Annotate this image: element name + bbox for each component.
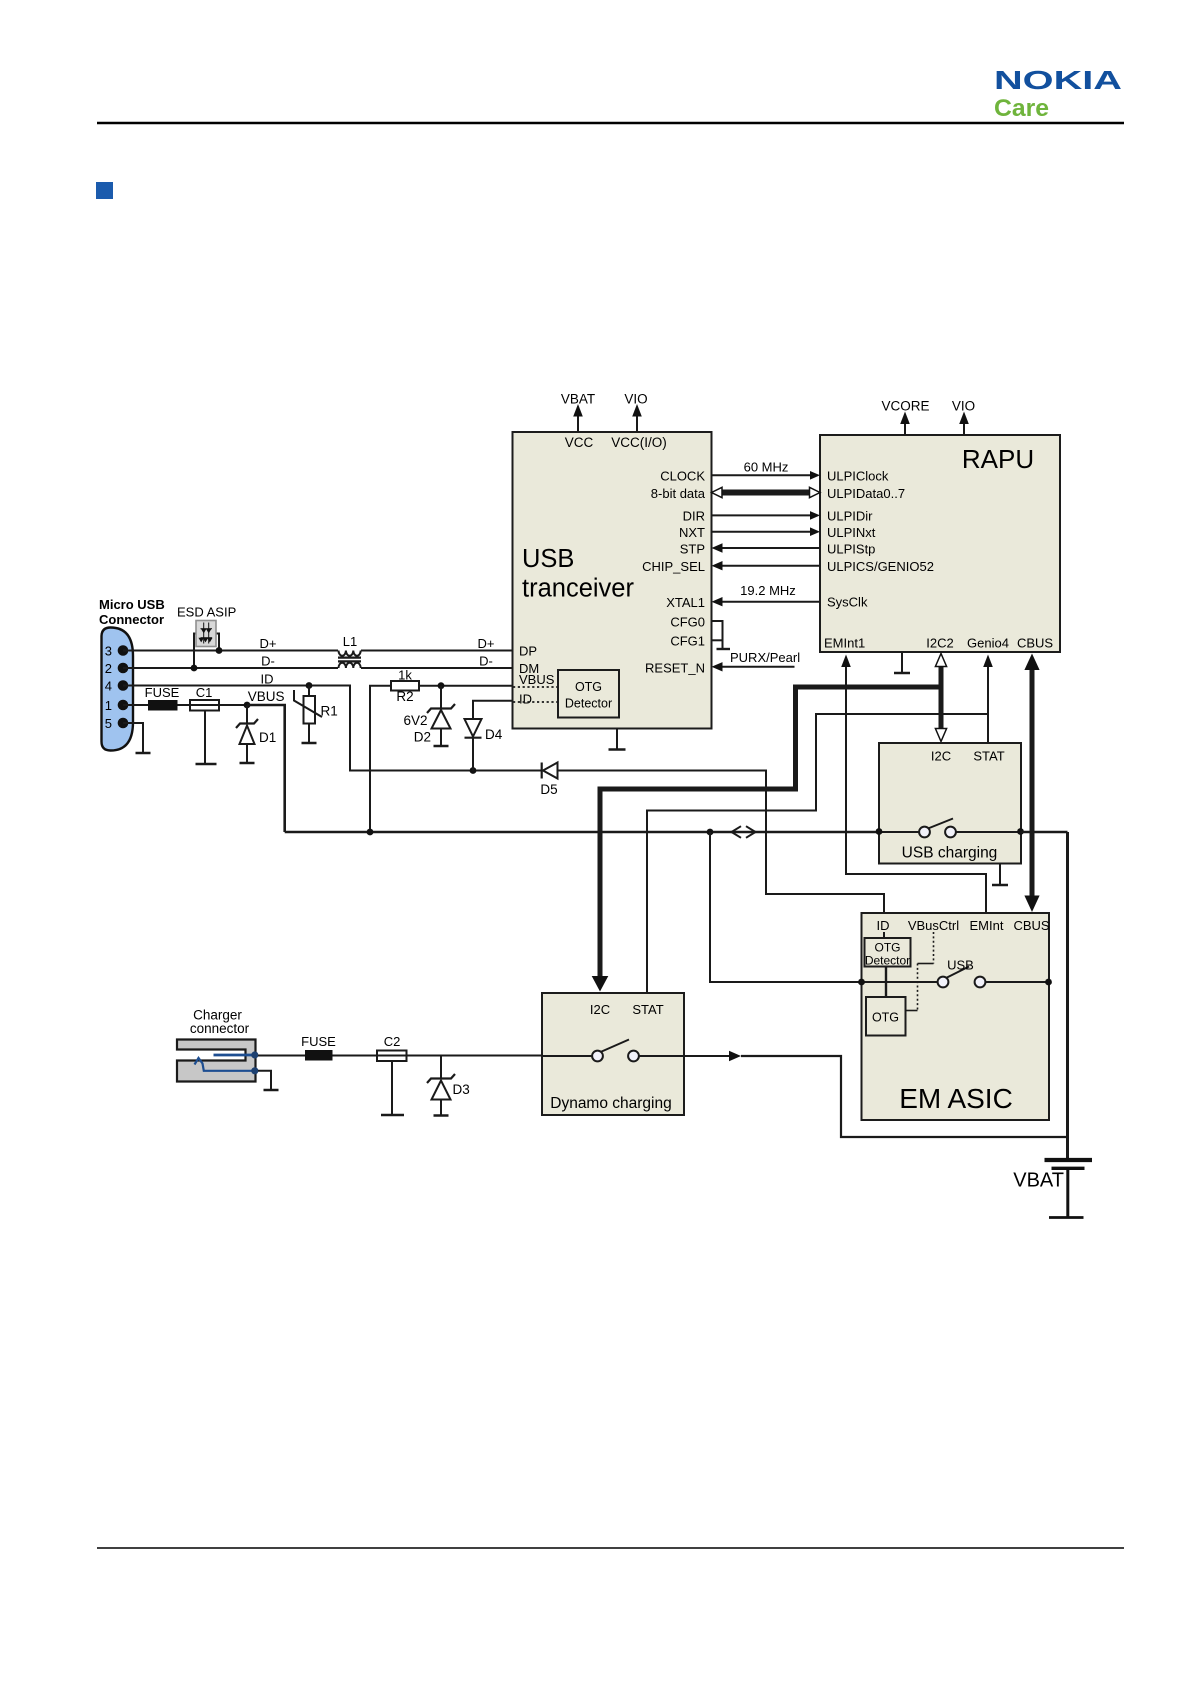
wire DIR to ULPIDir bbox=[712, 511, 821, 520]
svg-text:D5: D5 bbox=[540, 782, 557, 797]
ground R1 bbox=[302, 742, 317, 745]
svg-text:VCC(I/O): VCC(I/O) bbox=[611, 435, 667, 450]
svg-text:4: 4 bbox=[105, 679, 112, 694]
svg-text:I2C: I2C bbox=[931, 749, 951, 764]
svg-text:I2C2: I2C2 bbox=[926, 636, 953, 651]
Micro USB connector body bbox=[102, 628, 134, 751]
wire VBUS to rail bbox=[247, 705, 285, 832]
svg-text:STAT: STAT bbox=[973, 749, 1004, 764]
CFG0 CFG1 strap to ground bbox=[712, 621, 723, 648]
svg-text:OTG: OTG bbox=[575, 680, 602, 694]
wire ID net bbox=[123, 686, 884, 914]
wire RESET_N bbox=[712, 662, 795, 671]
transceiver left pin labels bbox=[519, 643, 555, 706]
svg-text:ULPICS/GENIO52: ULPICS/GENIO52 bbox=[827, 559, 934, 574]
USB charging block bbox=[879, 743, 1021, 864]
svg-text:D+: D+ bbox=[478, 636, 495, 651]
charger pin node B bbox=[251, 1067, 258, 1074]
svg-text:ESD ASIP: ESD ASIP bbox=[177, 605, 236, 620]
svg-text:D4: D4 bbox=[485, 727, 503, 742]
bidirectional marker on rail bbox=[732, 826, 756, 838]
svg-text:CHIP_SEL: CHIP_SEL bbox=[642, 559, 705, 574]
svg-text:CFG1: CFG1 bbox=[670, 633, 705, 648]
diode D4 bbox=[465, 701, 513, 771]
OTG detector box (transceiver) bbox=[558, 670, 619, 718]
ground C2 bbox=[381, 1114, 404, 1117]
svg-text:60 MHz: 60 MHz bbox=[744, 460, 789, 475]
svg-text:Detector: Detector bbox=[865, 954, 910, 968]
pin 5 bbox=[105, 716, 129, 731]
charger outer contact (blue) bbox=[195, 1058, 255, 1071]
diode D5 bbox=[542, 763, 558, 779]
wire CBUS bus bbox=[1024, 654, 1039, 913]
svg-text:Dynamo charging: Dynamo charging bbox=[550, 1095, 671, 1112]
ground below transceiver bbox=[609, 729, 626, 750]
junction rail/R2 bbox=[367, 829, 374, 836]
svg-text:NXT: NXT bbox=[679, 525, 705, 540]
wire VBUS pin1 bbox=[123, 704, 247, 706]
svg-text:VBusCtrl: VBusCtrl bbox=[908, 918, 959, 933]
svg-text:R2: R2 bbox=[396, 689, 413, 704]
svg-text:CBUS: CBUS bbox=[1017, 636, 1053, 651]
svg-text:SysClk: SysClk bbox=[827, 595, 868, 610]
wire EMInt1 net bbox=[841, 655, 986, 914]
svg-text:CLOCK: CLOCK bbox=[660, 469, 705, 484]
svg-text:Detector: Detector bbox=[565, 697, 612, 711]
pin 2 bbox=[105, 661, 129, 676]
ground D1 bbox=[240, 762, 255, 765]
svg-text:6V2: 6V2 bbox=[403, 713, 427, 728]
svg-text:ID: ID bbox=[519, 692, 532, 707]
junction rail at USB charging left bbox=[876, 828, 883, 835]
ground below RAPU bbox=[894, 652, 910, 673]
pin 4 bbox=[105, 679, 129, 694]
ESD ASIP body bbox=[196, 621, 216, 647]
svg-text:1k: 1k bbox=[398, 668, 412, 683]
svg-text:8-bit data: 8-bit data bbox=[651, 486, 706, 501]
ground CFG bbox=[717, 648, 731, 650]
svg-text:EMInt1: EMInt1 bbox=[824, 636, 865, 651]
EM ASIC U3 bbox=[862, 913, 1050, 1120]
junction EM ASIC right edge bbox=[1045, 979, 1052, 986]
svg-text:19.2 MHz: 19.2 MHz bbox=[740, 583, 796, 598]
svg-text:NOKIA: NOKIA bbox=[994, 65, 1122, 95]
Charger connector label bbox=[190, 1008, 250, 1037]
svg-text:VCORE: VCORE bbox=[881, 399, 929, 414]
dotted wire ID pin to OTG detector bbox=[513, 701, 558, 703]
VIO supply arrow (transceiver) bbox=[624, 392, 647, 433]
svg-text:VCC: VCC bbox=[565, 435, 594, 450]
svg-text:ULPIData0..7: ULPIData0..7 bbox=[827, 486, 905, 501]
switch (USB charging) bbox=[879, 819, 1021, 838]
switch USB (EM ASIC) bbox=[862, 967, 1049, 988]
junction EM ASIC left edge bbox=[858, 979, 865, 986]
svg-text:DP: DP bbox=[519, 643, 537, 658]
svg-text:ULPIStp: ULPIStp bbox=[827, 541, 875, 556]
Charger connector body bbox=[177, 1040, 256, 1082]
ground C1 bbox=[196, 763, 217, 766]
svg-text:XTAL1: XTAL1 bbox=[666, 595, 705, 610]
pin 3 bbox=[105, 644, 129, 659]
svg-text:R1: R1 bbox=[321, 704, 338, 719]
battery VBAT bbox=[1045, 1160, 1093, 1218]
ground D3 bbox=[434, 1114, 449, 1117]
ESD ASIP bracket wires bbox=[194, 634, 219, 669]
svg-text:VBAT: VBAT bbox=[561, 392, 595, 407]
svg-text:ULPINxt: ULPINxt bbox=[827, 525, 876, 540]
charger pin node A bbox=[251, 1051, 258, 1058]
svg-text:CFG0: CFG0 bbox=[670, 614, 705, 629]
junction R2/D2 bbox=[438, 682, 445, 689]
svg-text:VBUS: VBUS bbox=[248, 689, 285, 704]
label USB tranceiver bbox=[522, 545, 634, 603]
dotted wire VBUS pin to OTG detector bbox=[513, 686, 558, 688]
zener diode D1 bbox=[236, 705, 258, 762]
svg-text:connector: connector bbox=[190, 1021, 250, 1036]
wire Genio4 branch to Dynamo STAT bbox=[647, 714, 988, 993]
RAPU bottom pin labels bbox=[824, 636, 1053, 651]
zener diode D3 bbox=[427, 1056, 455, 1115]
switch (dynamo) bbox=[542, 1040, 684, 1062]
svg-text:RESET_N: RESET_N bbox=[645, 660, 705, 675]
svg-text:C1: C1 bbox=[196, 685, 213, 700]
charger center pin (blue) bbox=[214, 1054, 255, 1057]
junction ESD to D- bbox=[191, 665, 198, 672]
svg-text:EM ASIC: EM ASIC bbox=[899, 1083, 1013, 1114]
fuse (micro USB) bbox=[148, 700, 178, 711]
svg-text:D-: D- bbox=[261, 654, 275, 669]
C2 ground stub bbox=[391, 1061, 393, 1114]
ground D2 bbox=[434, 745, 449, 748]
wire CLOCK to ULPIClock bbox=[712, 471, 821, 480]
VCORE supply arrow bbox=[881, 399, 929, 436]
svg-text:EMInt: EMInt bbox=[970, 918, 1004, 933]
svg-text:ID: ID bbox=[877, 918, 890, 933]
OTG detector box (EM ASIC) bbox=[865, 932, 911, 968]
ground pin5 bbox=[136, 752, 151, 755]
wire Genio4 net bbox=[983, 655, 993, 743]
inductor L1 bbox=[338, 651, 361, 669]
junction ID/D4 bbox=[470, 767, 477, 774]
svg-text:2: 2 bbox=[105, 661, 112, 676]
svg-text:VIO: VIO bbox=[624, 392, 647, 407]
dotted wire VBusCtrl to OTG block bbox=[906, 932, 934, 1011]
svg-text:FUSE: FUSE bbox=[301, 1034, 336, 1049]
svg-text:D-: D- bbox=[479, 654, 493, 669]
header rule bbox=[97, 122, 1124, 124]
junction ESD to D+ bbox=[216, 647, 223, 654]
ground charger bbox=[264, 1089, 279, 1092]
capacitor C1 (feedthrough) bbox=[190, 700, 219, 763]
wire rail to EM ASIC VBUS input bbox=[710, 832, 862, 982]
RAPU U2 bbox=[820, 435, 1060, 652]
resistor R2 1k bbox=[370, 681, 513, 832]
transceiver right pin labels bbox=[642, 469, 706, 676]
wire XTAL1 to SysClk bbox=[712, 597, 821, 606]
svg-text:VIO: VIO bbox=[952, 399, 975, 414]
capacitor C2 (feedthrough) bbox=[377, 1051, 407, 1062]
wire I2C2 bus branch to Dynamo charging bbox=[592, 687, 941, 992]
USB transceiver U1 bbox=[513, 432, 712, 729]
wire dynamo output to VBAT line bbox=[684, 1051, 1068, 1137]
svg-text:5: 5 bbox=[105, 716, 112, 731]
svg-text:3: 3 bbox=[105, 644, 112, 659]
OTG block bbox=[866, 997, 906, 1036]
svg-text:RAPU: RAPU bbox=[962, 444, 1034, 474]
svg-text:1: 1 bbox=[105, 698, 112, 713]
EM ASIC top pin labels bbox=[877, 918, 1050, 933]
svg-text:VBUS: VBUS bbox=[519, 672, 555, 687]
svg-text:CBUS: CBUS bbox=[1013, 918, 1049, 933]
svg-text:PURX/Pearl: PURX/Pearl bbox=[730, 650, 800, 665]
svg-text:STP: STP bbox=[680, 541, 705, 556]
footer rule bbox=[97, 1547, 1124, 1549]
svg-text:D+: D+ bbox=[260, 636, 277, 651]
wire 8-bit data bus bbox=[712, 487, 821, 497]
ground below USB charging bbox=[992, 864, 1008, 886]
Micro USB connector label bbox=[99, 597, 165, 627]
svg-text:DIR: DIR bbox=[683, 509, 705, 524]
wire charger to dynamo box bbox=[258, 1055, 542, 1057]
svg-text:Micro USB: Micro USB bbox=[99, 597, 165, 612]
svg-text:OTG: OTG bbox=[875, 941, 901, 955]
wire charger shield to ground bbox=[258, 1071, 271, 1089]
VBUS rail bbox=[285, 831, 879, 834]
svg-text:USB: USB bbox=[522, 545, 574, 573]
svg-text:STAT: STAT bbox=[632, 1002, 663, 1017]
svg-text:Connector: Connector bbox=[99, 612, 164, 627]
fuse (charger) bbox=[305, 1050, 333, 1061]
svg-text:tranceiver: tranceiver bbox=[522, 575, 634, 603]
svg-text:C2: C2 bbox=[384, 1034, 401, 1049]
svg-text:ID: ID bbox=[261, 672, 274, 687]
junction rail at USB charging right bbox=[1017, 828, 1024, 835]
junction rail/EM ASIC feed bbox=[707, 829, 714, 836]
wire OTG detector to OTG block bbox=[885, 967, 887, 998]
wire rail to VBAT line bbox=[1021, 831, 1068, 834]
svg-text:L1: L1 bbox=[343, 634, 357, 649]
junction ID/R1 bbox=[306, 682, 313, 689]
svg-text:ULPIDir: ULPIDir bbox=[827, 509, 873, 524]
RAPU left pin labels bbox=[827, 469, 934, 610]
wire I2C2 bus bbox=[935, 654, 946, 742]
junction VBUS/D1 bbox=[244, 702, 251, 709]
section bullet bbox=[96, 182, 113, 199]
varistor R1 bbox=[294, 686, 322, 743]
svg-text:D1: D1 bbox=[259, 730, 276, 745]
wire CHIP_SEL to ULPICS bbox=[712, 561, 821, 570]
svg-text:D3: D3 bbox=[453, 1082, 470, 1097]
svg-text:Genio4: Genio4 bbox=[967, 636, 1009, 651]
wire NXT to ULPINxt bbox=[712, 527, 821, 536]
Nokia logo bbox=[994, 65, 1122, 122]
svg-text:FUSE: FUSE bbox=[145, 685, 180, 700]
svg-text:I2C: I2C bbox=[590, 1002, 610, 1017]
pin 1 bbox=[105, 698, 129, 713]
svg-text:ULPIClock: ULPIClock bbox=[827, 469, 889, 484]
svg-text:USB: USB bbox=[947, 958, 974, 973]
svg-text:OTG: OTG bbox=[872, 1011, 899, 1025]
zener diode D2 bbox=[427, 686, 455, 745]
wire STP to ULPIStp bbox=[712, 543, 821, 552]
svg-text:Care: Care bbox=[994, 95, 1049, 122]
svg-text:D2: D2 bbox=[414, 730, 431, 745]
svg-text:VBAT: VBAT bbox=[1013, 1170, 1064, 1192]
wire D+ net bbox=[123, 650, 513, 652]
Dynamo charging block bbox=[542, 993, 684, 1115]
wire pin5 to ground bbox=[123, 723, 143, 752]
VBAT supply arrow bbox=[561, 392, 595, 433]
svg-text:USB charging: USB charging bbox=[902, 845, 998, 862]
VBAT vertical line bbox=[1066, 832, 1069, 1158]
wire D- net bbox=[123, 667, 513, 669]
VIO supply arrow (RAPU) bbox=[952, 399, 975, 436]
